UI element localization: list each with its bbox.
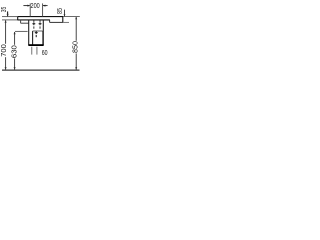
dimension 850 arrow bottom <box>75 67 77 70</box>
svg-text:850: 850 <box>72 41 79 53</box>
dimension 630 arrow top <box>14 32 16 35</box>
basin left edge <box>17 17 19 21</box>
siphon inner box top <box>33 30 43 32</box>
small left dimension stub <box>7 11 9 16</box>
right underbody line <box>50 21 63 23</box>
siphon axis cross <box>35 31 38 37</box>
dimension 630 extension line <box>15 30 28 32</box>
dimension 200 extension line right <box>42 3 44 16</box>
pedestal bottom thick edge <box>28 44 43 46</box>
dimension 200 arrow right <box>43 5 46 7</box>
basin rim top extension right <box>63 16 80 18</box>
drain pipe stub left <box>31 47 33 55</box>
left underbody line <box>21 22 29 24</box>
basin right edge <box>62 17 64 23</box>
fixing hole cross right <box>39 21 42 29</box>
fixing hole cross left <box>32 21 35 29</box>
dimension 700 label underlay <box>2 44 8 57</box>
dimension 630 arrow bottom <box>14 67 16 70</box>
dimension 700 arrow bottom <box>5 67 7 70</box>
pedestal left side <box>28 20 30 45</box>
basin rim bottom extension left <box>2 19 18 21</box>
left underbody step <box>20 20 22 23</box>
small left dimension arrow <box>7 14 9 17</box>
dimension 850 line <box>75 17 77 69</box>
small right dimension arrow <box>64 14 66 16</box>
svg-text:630: 630 <box>11 45 18 58</box>
dimension 700 arrow top <box>5 20 7 23</box>
right underbody extension line <box>63 21 69 23</box>
dimension 200 arrow left <box>27 5 30 7</box>
dimension 630 line <box>14 32 16 69</box>
background <box>0 0 80 80</box>
svg-text:85: 85 <box>57 8 64 14</box>
dimension 850 label underlay <box>73 41 79 54</box>
pedestal right side <box>42 20 44 45</box>
basin rim bottom line <box>18 19 50 21</box>
siphon inner box right side <box>42 31 44 45</box>
dimension 630 label underlay <box>12 45 18 59</box>
dimension 200 extension line left <box>29 3 31 16</box>
dimension 850 arrow top <box>75 17 77 20</box>
floor line <box>2 69 80 71</box>
dimension 200 line left <box>23 5 29 7</box>
small right dimension stub <box>64 10 66 17</box>
siphon inner box left side <box>32 31 34 45</box>
dimension 700 line <box>5 20 7 69</box>
basin rim top extension left <box>2 16 18 18</box>
svg-text:700: 700 <box>1 44 8 57</box>
right underbody step <box>49 20 51 23</box>
dimension 200 line right <box>43 5 48 7</box>
svg-text:200: 200 <box>31 1 40 10</box>
basin rim top line <box>18 16 63 18</box>
svg-text:60: 60 <box>42 50 48 57</box>
drain pipe stub right <box>36 47 38 55</box>
svg-text:35: 35 <box>1 7 8 13</box>
